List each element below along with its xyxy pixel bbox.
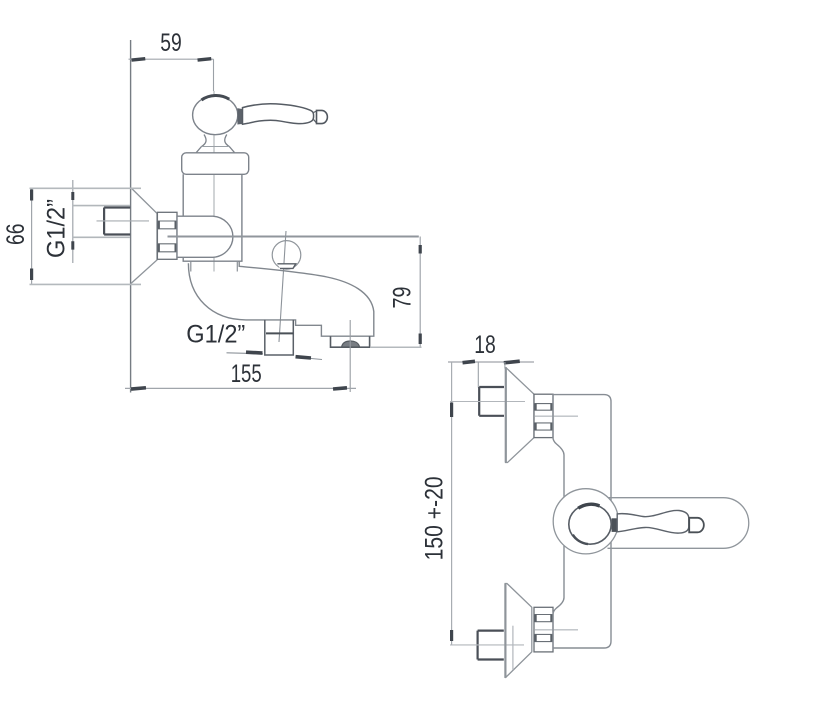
escutcheon F2 top edge emphasis [505,367,507,462]
dimension 79 ticks [419,245,422,344]
dimension 66 extension lines [30,188,142,284]
inlet centerline F2 top [450,401,525,403]
dimension 18 line [448,361,534,363]
svg-text:150 +-20: 150 +-20 [421,476,449,560]
leader G1/2 bottom left [227,353,264,354]
diverter base F1 [277,264,295,269]
handle ring shading F2 [578,504,599,508]
connector shading F2 bottom [536,615,552,642]
dimension 79 line [419,237,421,348]
dimension 66 line [31,188,33,284]
dimension 59 right tick [197,57,211,62]
body F2 [553,395,611,648]
inlet block F1 [104,208,130,235]
lever neck F1 [238,109,243,124]
dimension G1/2 left line [72,180,74,263]
handle stem F1 [196,135,234,153]
valve centerline F1 (79 top extension) [168,236,419,238]
dimension 150+-20 line [451,362,453,645]
spout F1 [188,261,373,336]
inlet block F2 bottom [478,631,504,660]
dimension G1/2 ticks [71,192,74,250]
svg-text:G1/2”: G1/2” [186,321,245,349]
connector shading F1 [159,221,176,252]
dimension 150 ticks [450,403,453,642]
inlet centerline F1 [97,220,150,222]
dimension 18 extension lines [478,362,505,388]
dimension 79 bottom extension [370,346,422,348]
threaded connector F2 bottom [534,607,553,652]
handle capsule F2 [608,498,749,549]
escutcheon F1 [131,188,157,284]
leader G1/2 bottom right [296,357,323,360]
leader tick left [246,350,263,354]
handle ring outer F2 [553,489,618,554]
svg-text:79: 79 [389,287,417,309]
escutcheon F2 bottom edge emphasis [504,584,506,678]
dimension 18 right tick [504,359,520,364]
dimension 59 left tick [131,57,145,62]
connector bands F2 top [534,404,553,431]
svg-text:18: 18 [474,331,496,359]
node centerline F1 [213,91,215,272]
svg-text:G1/2”: G1/2” [43,199,71,258]
body cylinder F1 [183,174,242,261]
hose connector shoulder F1 [266,332,293,334]
connector band lines F1 [157,221,177,252]
lever neck F2 [612,518,618,532]
escutcheon rim edge F2 bottom [512,626,514,670]
escutcheon F2 bottom [505,584,532,678]
dimension 155 extension line (outlet centerline) [349,320,351,392]
svg-text:155: 155 [231,360,262,388]
escutcheon F2 top [506,367,534,462]
diverter rod centerline F1 [279,231,286,342]
handle ring inner F2 [569,504,611,544]
dimension 59 extension line [213,59,215,91]
svg-text:59: 59 [160,29,182,57]
dimension 66 ticks [30,189,33,280]
leader tick right [295,355,311,360]
body cap F1 [182,153,249,175]
aerator dome F1 [342,341,360,347]
dimension 59 line [129,58,214,60]
dimension 155 right tick [333,386,347,391]
threaded connector F1 [157,212,177,259]
svg-text:66: 66 [2,224,30,246]
valve cartridge F1 [177,216,233,257]
lever handle F2 [617,510,689,533]
wire wall line (fixture 1 mounting plane) [130,40,132,393]
dimension 155 line [125,387,356,389]
connector shading F2 top [536,404,552,431]
handle ball top shading [202,95,230,100]
lever handle F1 [243,104,314,124]
connector centerline F2 bottom [535,629,578,631]
handle ball F1 [193,96,238,135]
body skirt F1 [191,261,238,271]
lever tip F1 [317,110,328,123]
inlet centerline F2 bottom [450,644,524,646]
dimension G1/2 extension lines [73,206,130,238]
dimension 18 left tick [462,360,475,365]
lever tip F2 [689,518,704,533]
handle ring lower shading F2 [573,535,588,545]
diverter knob F1 [272,241,301,270]
hose connector F1 [265,320,294,355]
aerator collar F1 [331,336,370,347]
dimension 155 left tick [131,386,146,391]
connector centerline F2 top [535,415,578,417]
inlet block F2 top [479,387,504,416]
handle stem seam F1 [202,146,230,148]
lever tip bridge F1 [314,111,317,123]
threaded connector F2 top [534,394,553,437]
connector bands F2 bottom [534,615,553,642]
